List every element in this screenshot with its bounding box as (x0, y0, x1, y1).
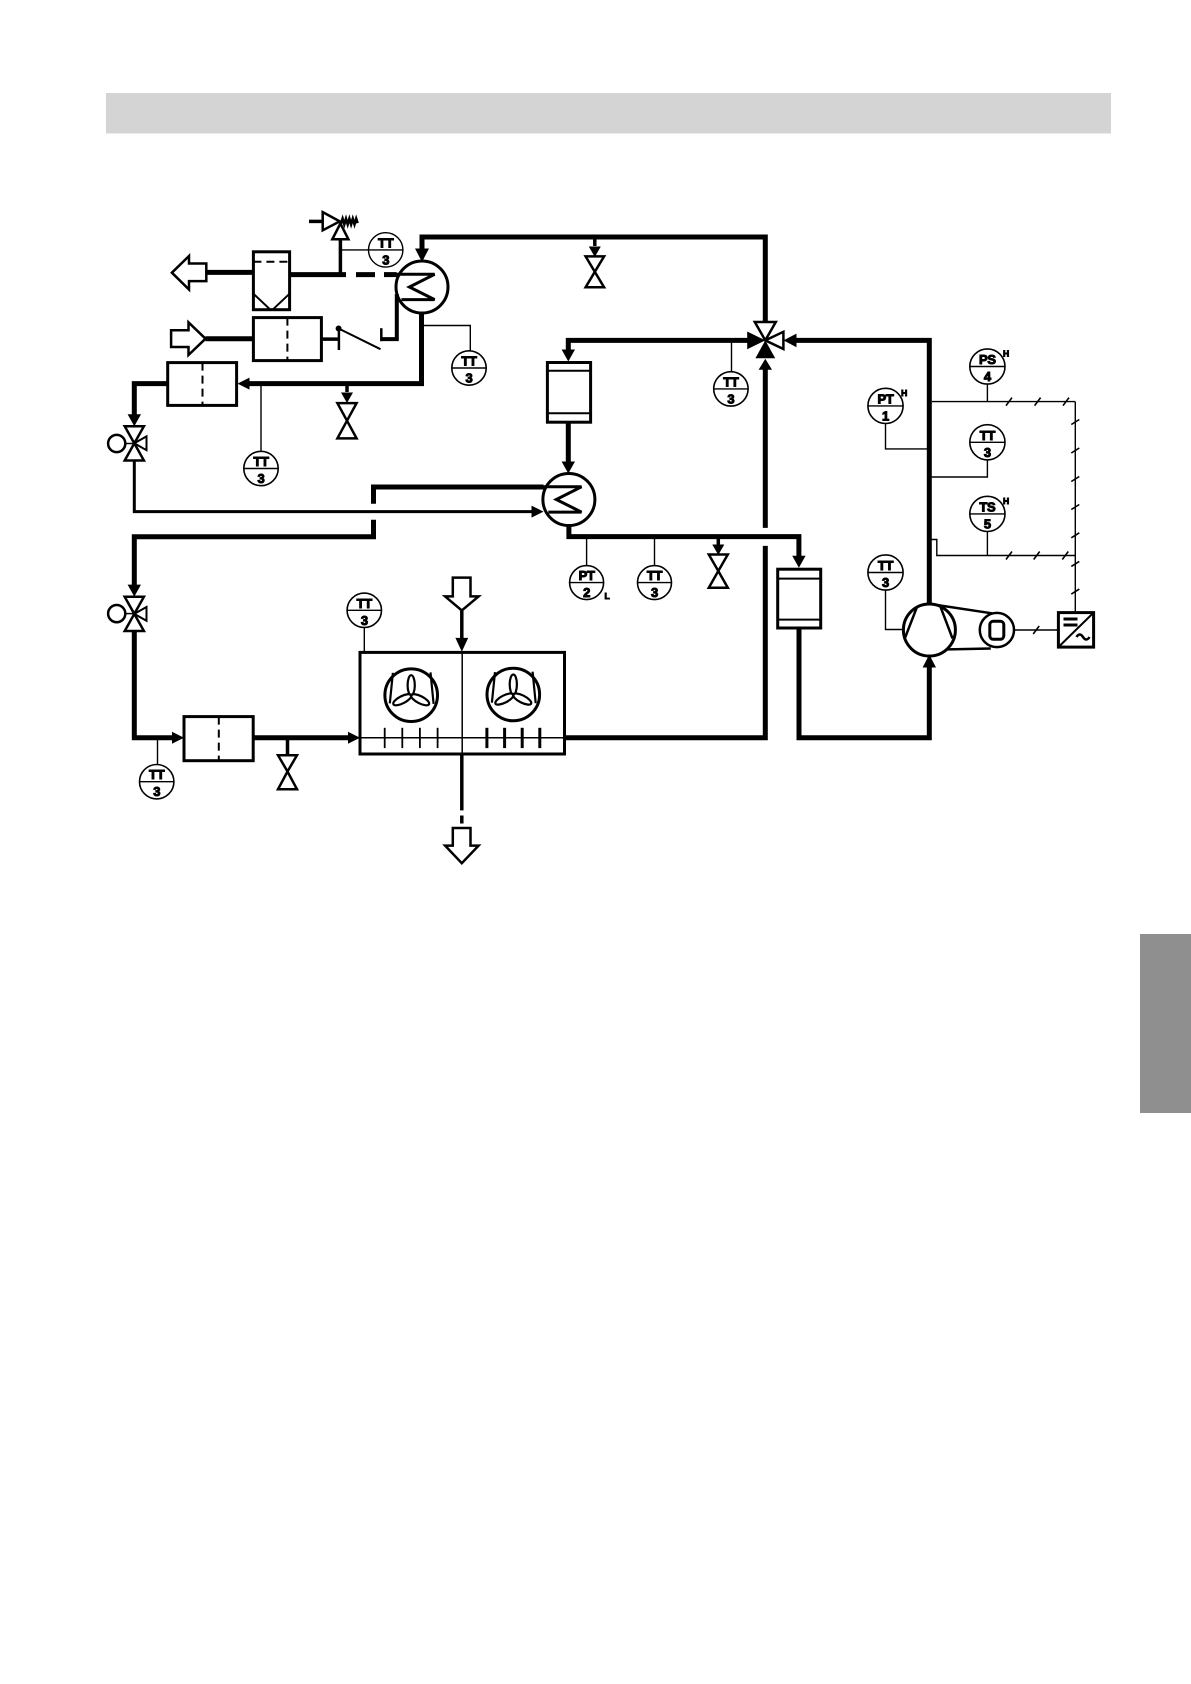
svg-text:TT: TT (461, 354, 477, 369)
svg-text:TT: TT (647, 568, 663, 583)
svg-text:4: 4 (984, 369, 992, 384)
svg-text:TT: TT (878, 558, 894, 573)
svg-text:3: 3 (882, 575, 889, 590)
svg-text:TT: TT (378, 235, 394, 250)
svg-text:H: H (901, 388, 907, 398)
svg-text:H: H (1003, 349, 1009, 359)
svg-text:TS: TS (979, 499, 996, 514)
svg-text:5: 5 (984, 516, 991, 531)
svg-text:3: 3 (984, 445, 991, 460)
svg-text:TT: TT (357, 596, 373, 611)
svg-text:3: 3 (361, 613, 368, 628)
svg-text:H: H (1003, 496, 1009, 506)
svg-text:3: 3 (153, 784, 160, 799)
svg-text:TT: TT (149, 767, 165, 782)
svg-text:TT: TT (253, 454, 269, 469)
svg-text:3: 3 (727, 391, 734, 406)
svg-text:1: 1 (882, 408, 889, 423)
svg-text:PT: PT (877, 391, 893, 406)
svg-text:3: 3 (382, 252, 389, 267)
svg-text:PT: PT (579, 568, 595, 583)
svg-text:3: 3 (466, 371, 473, 386)
svg-text:3: 3 (258, 471, 265, 486)
svg-text:TT: TT (980, 428, 996, 443)
svg-text:PS: PS (979, 352, 996, 367)
svg-text:TT: TT (723, 374, 739, 389)
svg-text:2: 2 (583, 585, 590, 600)
svg-text:L: L (605, 591, 610, 601)
svg-text:3: 3 (651, 585, 658, 600)
